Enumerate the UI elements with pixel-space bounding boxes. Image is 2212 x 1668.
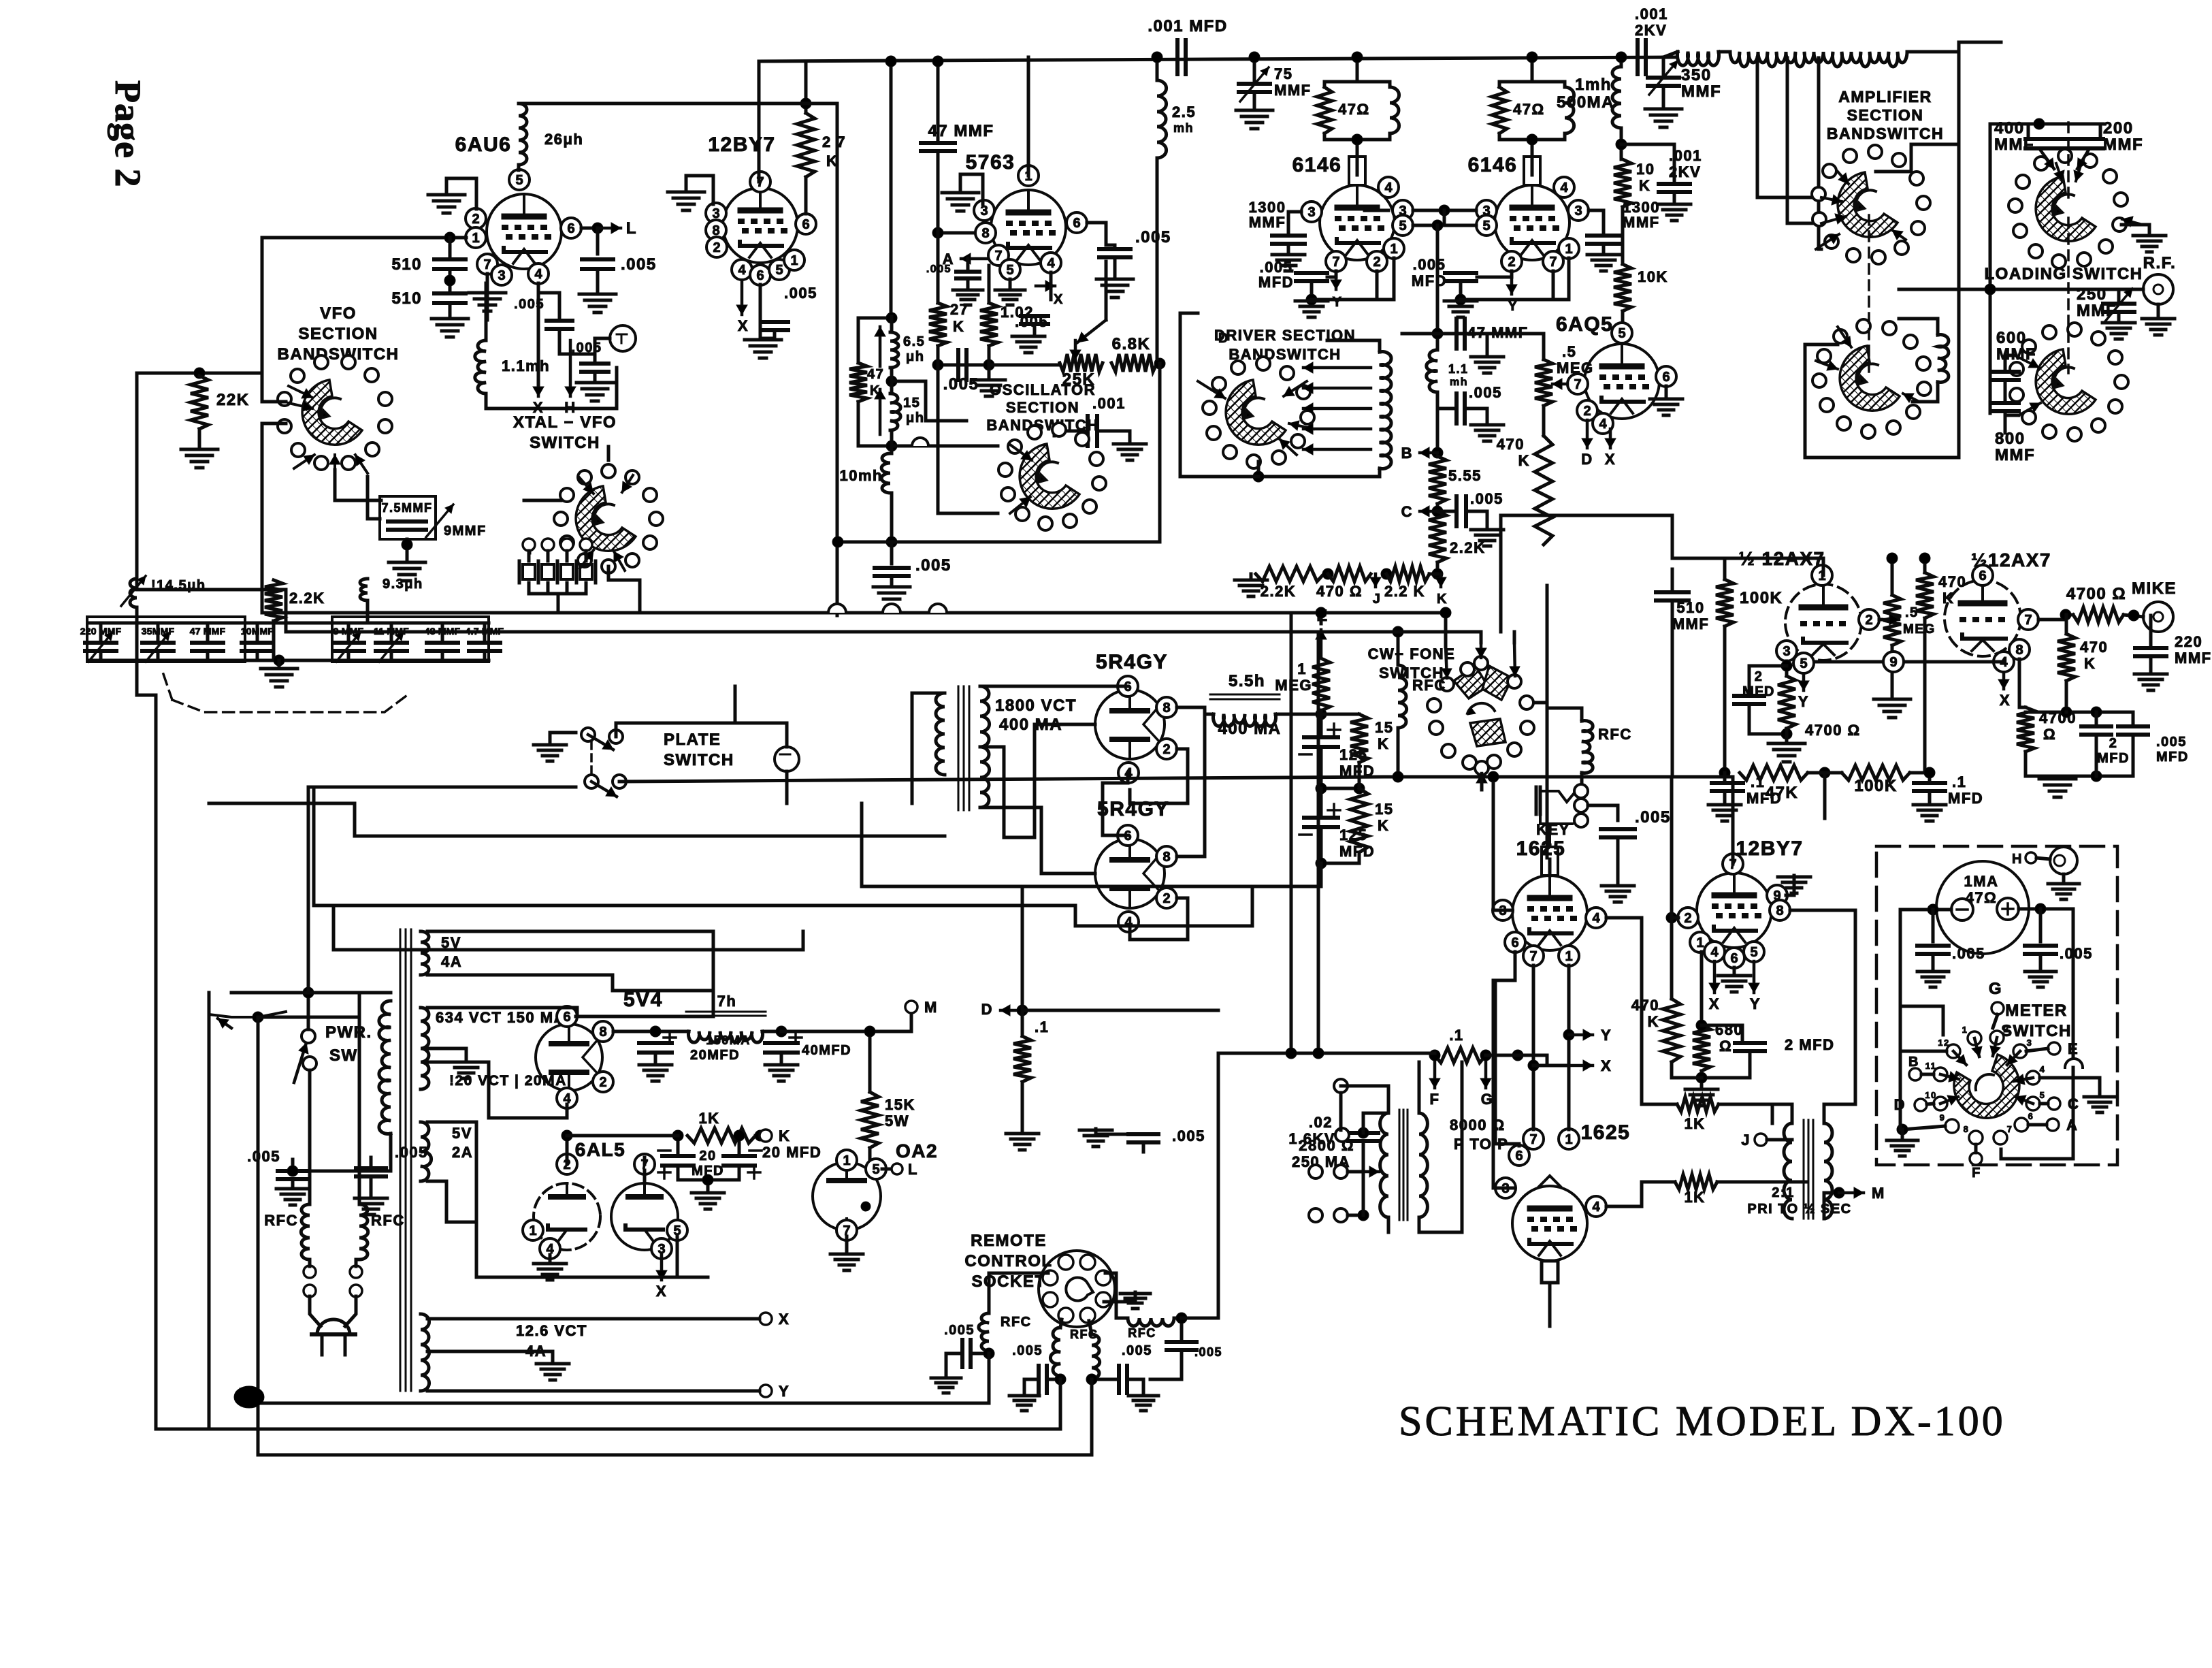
svg-text:K: K [1378,735,1389,752]
wire [441,651,444,660]
wire [366,600,370,623]
wire x link [1533,1064,1569,1068]
wire bus1150 [308,786,576,789]
terminal L [892,1164,902,1174]
svg-text:5: 5 [1482,219,1490,234]
wire lamp up [785,723,789,747]
svg-text:9: 9 [1889,655,1897,670]
wire 12BY7b plate [1731,783,1735,864]
wire pin6 to L [581,227,598,230]
ground line right [355,1198,387,1215]
svg-text:12BY7: 12BY7 [708,133,775,156]
svg-text:METER: METER [2005,1001,2068,1020]
arrow junction [218,1019,231,1028]
wire mod top [1772,1104,1792,1123]
transformer power primary [379,1001,391,1134]
junction [650,1026,661,1037]
svg-text:.005: .005 [1952,945,1985,962]
arrow node X 12BY7 [736,280,747,315]
wire OA2 to L [882,1168,892,1171]
ground 47MMF drv [1471,357,1503,373]
wire pin4 to .005 [538,291,558,295]
contact cw-fone [1440,677,1454,691]
wire rect2 out [1177,707,1205,856]
svg-text:mh: mh [1173,121,1194,135]
wire cap c1 gnd [1024,1379,1038,1394]
inductor 15uh [890,394,900,430]
wire [355,1260,358,1266]
junction [755,1130,766,1141]
svg-text:L: L [908,1161,918,1178]
svg-text:2KV: 2KV [1635,22,1667,39]
wire plug left [310,1296,321,1326]
svg-text:2:1: 2:1 [1772,1185,1794,1200]
arrow cw contact 4 [1476,773,1487,790]
svg-text:MFD: MFD [1258,274,1294,291]
switch PLATE poles [581,728,626,788]
svg-text:1625: 1625 [1581,1121,1631,1144]
capacitor 350MMF [1648,78,1679,86]
svg-text:OA2: OA2 [896,1140,938,1161]
capacitor 20MFD main [639,1043,672,1053]
svg-text:RFC: RFC [264,1212,298,1229]
wire [527,551,531,561]
wire 5V4 pin4 tap [427,1062,567,1118]
svg-text:.005: .005 [1172,1127,1205,1144]
resistor 680 ohm [1693,1025,1710,1071]
connector RF output [2143,274,2173,304]
svg-text:40MFD: 40MFD [802,1043,851,1058]
svg-text:1: 1 [1565,949,1572,964]
wire xfmr taps [1362,1141,1365,1215]
svg-text:.5: .5 [1562,343,1576,360]
wire rfc l to bus [988,1368,991,1402]
svg-text:8: 8 [1776,903,1783,918]
transformer sec 5V2A [421,1122,432,1181]
svg-text:X: X [2000,692,2011,709]
ground RF connector [2142,319,2175,335]
wire 12BY7b feed bus [1545,775,1733,779]
svg-text:.005: .005 [2060,945,2093,962]
svg-text:2: 2 [1162,742,1170,757]
wire tank stem [1531,57,1534,82]
svg-text:7: 7 [2024,613,2032,628]
wire 1k b right [1717,1181,1807,1184]
svg-text:M: M [1872,1185,1885,1202]
wire rfc to key [1580,773,1584,784]
svg-text:2: 2 [2109,736,2118,751]
ground below 22K [181,449,218,468]
wire RF bus [1959,288,2143,291]
ground at 6AU6 grid [428,195,465,213]
svg-text:RFC: RFC [371,1212,405,1229]
dashed shaft link loading [2067,218,2070,373]
wire contact to trimmer box [368,477,380,519]
svg-text:5R4GY: 5R4GY [1096,651,1168,673]
wire c cap [1437,510,1457,513]
wire [1723,558,1727,579]
wire [1253,57,1256,83]
wire 5V2A b [427,1181,476,1222]
svg-text:1K: 1K [1684,1115,1705,1132]
arrow cw contact 1 [1476,643,1486,658]
junction [886,312,897,323]
arrow node F [1429,1062,1440,1088]
wire v5 pin1 down [1553,258,1569,300]
wire osc feed vertical [890,61,893,317]
wire rect heater links [1103,773,1128,835]
wire J to coil [1767,1138,1792,1142]
wire [240,1390,243,1403]
wire [312,787,316,905]
wire 800 contact [2005,414,2019,417]
junction [886,376,897,387]
contact interlock 1 [1334,1079,1348,1093]
junction [1928,904,1938,915]
wire rfc t to cap [1174,1318,1182,1342]
wire d bus down [1021,886,1024,1010]
wire [99,623,103,643]
wire coil tap y570 [1303,383,1371,394]
wire [1620,128,1623,159]
wire rect2 lower pin [1130,898,1188,940]
capacitor .02 1.6KV [1348,1133,1378,1141]
junction [672,1130,683,1141]
svg-text:5: 5 [1800,656,1807,671]
svg-text:.005: .005 [621,255,657,274]
wire [1436,408,1440,453]
wire cathode link [1413,224,1476,227]
arrow meter contact 4 [2014,1074,2033,1085]
ground .005 mid [1079,1130,1112,1146]
tube 12AX7a internals [1800,584,1847,655]
wire tap2 [1787,222,1821,225]
wire 47Ω tank 2 sides [1498,82,1501,87]
wire [1602,244,1606,253]
capacitor .1 MFD left [1712,783,1743,791]
wire [1671,569,1674,592]
svg-text:800: 800 [1995,430,2026,448]
wire [585,551,588,561]
svg-text:6AU6: 6AU6 [455,133,512,156]
svg-text:470 Ω: 470 Ω [1316,583,1363,600]
wire [1090,1379,1094,1443]
junction [1440,607,1451,618]
wire [390,623,393,643]
tube 1625 V14 [1512,1186,1587,1261]
wire lamp feed [785,771,789,803]
svg-text:8000 Ω: 8000 Ω [1450,1117,1506,1134]
wire 10K to 6AQ5 [1621,311,1625,333]
svg-text:.005: .005 [395,1144,428,1161]
wire E bus [1320,613,1323,624]
wire v5 cathode join [1461,271,1553,300]
arrow 200 to contact [2077,148,2089,169]
wire 200 to cap [2099,124,2102,139]
wire [135,607,139,623]
resistor 27K screen 12BY7 [797,113,815,177]
wire hop bus [929,604,947,613]
ground below .005 5763 [1096,279,1133,298]
wire pin1 to grid caps [262,236,466,240]
wire [890,577,894,586]
arrow node D mid [1001,1005,1022,1016]
svg-text:1: 1 [472,231,479,246]
wire meter right vertical [2072,909,2075,1062]
arrow node A [961,253,987,264]
svg-text:.005: .005 [944,1323,975,1338]
tube 12BY7 V2 [723,188,798,263]
contact meter switch 3 [2013,1038,2032,1058]
svg-text:.005: .005 [1194,1345,1222,1359]
capacitor 220 MMF VFO tuning [85,643,116,651]
svg-text:1: 1 [529,1223,536,1238]
ground node X 5763 [1012,336,1045,353]
ground 680 [1685,1089,1718,1106]
capacitor 11 MMF VFO tuning [376,643,407,651]
inductor 5.5h filter choke [1214,714,1276,726]
svg-text:BANDSWITCH: BANDSWITCH [1229,346,1341,363]
wire coil to pin5 [517,165,521,170]
svg-text:22K: 22K [216,391,250,409]
svg-text:Y: Y [1601,1027,1612,1044]
junction [1176,1313,1187,1324]
wire 6AL5 bottom bus [476,1276,677,1279]
ground .1 right [1913,805,1946,821]
wire [1671,600,1674,776]
svg-text:.005: .005 [572,340,602,355]
wire [1486,1054,1547,1057]
svg-text:B: B [1908,1055,1919,1070]
transformer power core [400,929,411,1391]
pot wiper 25K [1070,340,1081,359]
svg-text:1mh: 1mh [1575,76,1612,94]
capacitor 250MMF [2103,304,2134,312]
svg-text:MMF: MMF [1995,446,2035,464]
junction [1985,284,1996,295]
wire [988,1353,991,1368]
wire 5763 plate stem [1027,57,1030,176]
tube 5R4GY V9 [1095,839,1165,908]
wire [773,330,777,338]
svg-text:8: 8 [1162,701,1170,716]
plus a2 [658,1166,670,1178]
junction [1432,568,1443,579]
wire rect out to choke [1205,707,1214,714]
trimmer arrow 250MMF [2105,289,2132,321]
svg-text:7: 7 [2007,1124,2013,1134]
svg-text:G: G [1481,1091,1494,1108]
wire 1300 right [1589,210,1604,236]
ground .005 C [1471,530,1503,546]
wire [1397,632,1400,665]
svg-text:8: 8 [981,226,989,241]
arrow meter contact 3 [2007,1051,2020,1065]
wire hop bus [883,604,900,613]
capacitor .005 osc fb [581,364,608,372]
tube 6AQ5 V6 [1584,344,1659,419]
wire drv sec bottom [1419,1062,1462,1232]
wire 470k to gnd row [1672,1076,1702,1080]
wire [566,1136,569,1164]
transformer 1800VCT core [958,686,969,810]
wire VFO sw lower contact [262,422,286,426]
wire rect cathodes join [1177,706,1205,709]
wire socket to rfc t [1105,1273,1128,1318]
ground below .005 pin6 [579,294,616,312]
arrow node X 6AL5 [656,1255,667,1280]
wire XTAL region riser [261,423,264,613]
capacitor 35MMF VFO tuning [142,643,174,651]
wire sec top to 5R4 pins [980,685,1128,688]
wire 400 to cap [2027,124,2030,139]
svg-text:500MA: 500MA [1557,93,1614,112]
wire pin7 to 4700 [2038,615,2073,620]
svg-text:2A: 2A [452,1144,473,1161]
capacitor 2MFD speech a [1734,696,1764,704]
dashed arrow slug 6.5uh [875,327,885,366]
svg-text:.5: .5 [1905,605,1919,620]
wire [1059,1379,1062,1426]
svg-text:6146: 6146 [1468,154,1518,176]
wire amp box outline2 [1805,289,1959,458]
svg-text:5: 5 [872,1162,879,1177]
wire 800 down [2004,411,2007,433]
svg-text:12: 12 [1938,1038,1949,1048]
wire top bus to tank coil [1959,42,2001,49]
wire cap c2 gnd [1128,1379,1143,1394]
wire [890,317,894,332]
ground 1300 left [1272,255,1305,271]
wire [2148,225,2151,234]
svg-text:REMOTE: REMOTE [971,1232,1047,1250]
svg-text:11: 11 [1925,1061,1937,1071]
wire [1310,281,1314,300]
wire [1492,777,1495,783]
resistor 1 MEG bleeder [1312,658,1330,711]
label XTAL-VFO SWITCH [513,413,617,452]
junction [2091,771,2102,782]
wire pin9 bracket [1786,876,1794,895]
contact cw-fone [1474,656,1488,670]
contact meter switch 8 [1964,1124,1983,1144]
svg-text:5R4GY: 5R4GY [1097,798,1169,820]
junction [1432,220,1443,231]
wire pin6 right [1087,221,1106,225]
wire 12.6 ct [427,1351,553,1362]
junction [274,655,284,666]
svg-text:D: D [981,1001,993,1018]
wire long left vertical 2 [208,993,211,1429]
wire [2157,304,2160,317]
svg-text:.005: .005 [1469,384,1502,401]
capacitor .001 2KV screen [1659,184,1690,192]
svg-text:Ω: Ω [1719,1038,1732,1055]
wire [1009,279,1012,289]
capacitor .005 at pin 6 [582,259,613,269]
wire speech B+ riser [1501,515,1672,632]
rotary switch oscillator bandswitch [998,423,1106,530]
wire 47Ω tank 1 top [1324,80,1390,84]
ground below .005 osc [873,587,910,605]
svg-text:4A: 4A [441,953,462,970]
ground below VFO caps [261,669,297,687]
wire [1320,714,1323,737]
svg-text:2: 2 [1755,669,1763,684]
junction [1834,1187,1844,1198]
ground remote 2 [1009,1396,1039,1411]
arrow meter contact 5 [2015,1095,2033,1105]
svg-text:6: 6 [802,217,809,232]
svg-text:7: 7 [1332,255,1339,270]
ground .005 drv [1471,425,1503,441]
wire [1670,783,1674,918]
wire [1733,967,1736,974]
arrow node X 12AX7b [1998,673,2009,689]
wire mid bus 1330 [314,886,1252,926]
junction [1819,767,1830,778]
wire [1321,787,1359,790]
svg-text:12BY7: 12BY7 [1736,837,1803,860]
ground below 510 caps [432,319,468,337]
label OSCILLATOR SECTION BANDSWITCH [986,381,1099,434]
wire [291,1179,295,1187]
wire 005 mid bracket [1096,1129,1143,1134]
junction [1455,294,1466,305]
wire [370,1176,373,1197]
wire mid link [892,381,966,421]
wire [2065,681,2068,712]
junction [1358,1210,1369,1221]
contact meter switch 12 [1938,1038,1960,1058]
svg-text:6: 6 [1511,935,1518,950]
capacitor 47MMF driver [1457,319,1465,349]
inductor 2.5mh [1157,80,1167,158]
wire .001 to gnd [1097,431,1130,443]
wire hop speech [1495,631,1497,632]
wire speech top bus [1672,557,1823,560]
inductor RFC line left [301,1204,310,1260]
wire [890,493,894,542]
inductor RFC remote c1 [1050,1328,1060,1376]
junction [832,536,843,547]
ground below pin 7 6AU6 [469,293,506,311]
svg-text:2 MFD: 2 MFD [1785,1036,1835,1053]
wire [937,365,940,513]
arrow node K [1435,574,1446,587]
svg-text:.005: .005 [784,285,817,302]
svg-text:BANDSWITCH: BANDSWITCH [278,345,400,364]
svg-text:9MMF: 9MMF [444,524,487,539]
svg-text:Page 2: Page 2 [108,80,148,187]
wire tank to grid cap [1356,140,1359,175]
wire 5V4 cathode out [613,1030,655,1033]
junction [592,223,603,234]
wire socket pin to rfc c2 [1089,1321,1092,1334]
wire xtal switch feed [524,499,561,502]
capacitor 20MFD bias b [723,1156,755,1166]
ground 6AL5 pin4 [534,1264,566,1280]
contact cw-fone [1475,761,1489,775]
junction [2060,609,2071,620]
svg-text:5763: 5763 [966,151,1015,174]
wire bus to tank coil [1663,52,1678,57]
wire sec top up [1418,1062,1421,1113]
terminal X [760,1313,772,1325]
capacitor 510 mmf upper [434,259,466,269]
svg-text:470: 470 [2080,639,2108,656]
resistor 10K lower [1614,264,1631,311]
